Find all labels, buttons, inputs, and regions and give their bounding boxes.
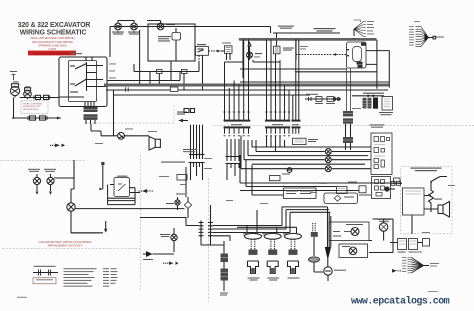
monitor aux box	[372, 177, 391, 199]
radio module box	[284, 188, 317, 199]
svg-text:WORK LIGHT AND: WORK LIGHT AND	[23, 102, 42, 105]
machine harness connector hatched	[363, 98, 372, 109]
wire diode row	[305, 98, 341, 100]
lamp L10	[44, 169, 56, 195]
wire down arrow	[104, 229, 107, 233]
starter arrow black	[146, 251, 153, 257]
small module box	[177, 175, 187, 181]
wiper relay box	[114, 177, 130, 196]
key switch right pins	[59, 66, 107, 98]
horn button dot	[384, 186, 389, 191]
svg-text:320 & 322 EXCAVATOR: 320 & 322 EXCAVATOR	[18, 22, 91, 29]
lamp L9	[28, 169, 41, 195]
relay K1	[196, 47, 209, 56]
breaker CB1	[274, 46, 281, 54]
console pins dark	[347, 43, 366, 68]
glow plug lamp	[171, 234, 177, 240]
epcatalogs watermark small	[428, 291, 438, 292]
arrow symbol small	[392, 269, 397, 273]
svg-text:WIRING SCHEMATIC: WIRING SCHEMATIC	[20, 30, 87, 37]
wire console loop outer	[201, 39, 347, 245]
right hand console label	[314, 28, 336, 32]
horn H1	[10, 84, 19, 98]
relay pair K3 K4	[398, 239, 407, 250]
wire bundle crossfeeds	[225, 60, 281, 62]
harness fan connector right	[416, 27, 429, 47]
fuse F2	[182, 70, 188, 74]
wire cab lamp	[101, 135, 149, 137]
console inner plug	[353, 47, 362, 62]
key switch contacts	[70, 62, 87, 92]
wire dashed boundary left cab region	[0, 105, 474, 302]
svg-text:(IF EQUIPPED): (IF EQUIPPED)	[23, 109, 39, 111]
diode row labels	[306, 94, 335, 104]
wire harness run y95	[113, 94, 310, 96]
machine harness plug dark	[373, 98, 378, 109]
wire fuel gauge bottom	[134, 61, 199, 90]
wire arrow terminator	[57, 117, 61, 120]
diode D1	[316, 97, 322, 102]
ground bowtie	[169, 262, 179, 265]
wire horn feed	[20, 97, 59, 99]
wire diamond row	[352, 95, 384, 97]
lamp console label	[161, 149, 197, 163]
wiper motor arrow	[142, 189, 147, 193]
pilot arrow component	[248, 43, 251, 61]
relay module box	[293, 138, 307, 144]
connector block below key switch (hatched)	[84, 107, 98, 120]
diode module	[423, 239, 430, 247]
lamp L1 rear work	[115, 23, 122, 30]
printed footnote	[17, 296, 27, 299]
module box small	[270, 176, 281, 181]
wire bundle lamp console	[191, 125, 203, 154]
svg-text:HORN CIRCUITS: HORN CIRCUITS	[23, 106, 41, 108]
svg-text:www.epcatalogs.com: www.epcatalogs.com	[351, 296, 450, 308]
fuse block label	[278, 26, 294, 29]
wire harness run y90	[106, 89, 388, 91]
connector C3 comb upper	[292, 39, 301, 121]
connector comb pair vertical A	[199, 221, 204, 239]
connector comb group1 lower	[226, 156, 241, 158]
lamp L7	[325, 157, 331, 163]
fuse F4	[287, 168, 292, 173]
flasher relay circle	[67, 203, 75, 211]
harness fan connector lower	[408, 258, 424, 273]
wire relay to diamond terminator	[209, 50, 218, 52]
lamp labels	[112, 24, 175, 35]
console fan connector	[354, 20, 367, 37]
connector C2 comb lower	[265, 126, 290, 135]
connector C2 comb upper	[265, 39, 290, 121]
connector C1 comb lower	[224, 126, 251, 135]
component label specks	[13, 21, 455, 252]
connector plug pair top	[184, 109, 189, 113]
connector chain bottom mid hatched	[221, 254, 229, 281]
to machine harness label	[363, 93, 384, 94]
alarm resistor zigzag	[429, 182, 434, 212]
ground arrow symbol	[55, 144, 65, 148]
svg-text:V-0271: V-0271	[48, 47, 57, 51]
wire bundle group1 lower	[227, 139, 239, 156]
svg-text:(PRINTED JUNE 2000): (PRINTED JUNE 2000)	[38, 43, 66, 47]
wire bus drop left	[91, 30, 140, 136]
connector plugs on lower wire	[30, 116, 36, 120]
lamp L3 boom work	[157, 23, 164, 30]
sensor box	[359, 186, 366, 193]
wire relay loops	[108, 185, 140, 205]
battery fork symbol	[10, 72, 17, 81]
wire lower accessory row	[12, 98, 61, 119]
svg-text:CAB AND BATTERY WIRING (IF EQU: CAB AND BATTERY WIRING (IF EQUIPPED)	[38, 240, 91, 244]
wire feed drop	[102, 162, 104, 189]
lamp L2 front work	[131, 23, 138, 30]
console connector box	[347, 42, 367, 68]
lamp L11 small	[175, 200, 180, 205]
cab battery wiring note (red)	[38, 240, 91, 247]
alarm switch	[431, 177, 447, 182]
connector comb lamp console lower	[189, 162, 205, 164]
work light label box (dashed)	[21, 101, 48, 114]
fuel gauge label	[158, 36, 171, 42]
connector plugs on horn wire	[36, 95, 41, 99]
wire relay drop	[198, 55, 200, 71]
legend note label	[34, 266, 56, 267]
bus junction block	[170, 87, 178, 91]
relay K2	[225, 46, 233, 54]
washer motor box	[339, 244, 368, 258]
solenoid SV1	[243, 233, 262, 281]
connector labels	[231, 124, 299, 125]
resistor module box	[337, 187, 348, 194]
wire dashed console feed	[336, 54, 347, 56]
connector comb pair vertical B	[208, 221, 213, 239]
main power bus (thick gray)	[104, 84, 389, 87]
wires from key switch bottom to harness connector	[85, 57, 94, 107]
wire lamp feed	[54, 160, 74, 178]
fuse F3	[327, 97, 334, 102]
wire lamp feed bus	[110, 21, 271, 58]
wire alarm connections	[412, 196, 438, 235]
legend text block B	[103, 268, 118, 286]
lamp L5	[247, 52, 253, 58]
wire lamp loop rows	[241, 147, 371, 169]
horn label	[434, 199, 442, 200]
connector C3 comb lower	[292, 126, 301, 133]
fuse F1	[157, 70, 163, 74]
key switch module box	[382, 97, 393, 111]
wire comb link	[186, 226, 290, 236]
wiper motor box	[329, 222, 369, 241]
lamp L4 cab	[118, 132, 125, 139]
wire flasher run	[75, 208, 184, 210]
monitor connections label	[370, 124, 385, 127]
fuel gauge region box	[148, 24, 195, 61]
funnel connector black	[325, 247, 331, 258]
fuel sender component	[172, 33, 181, 41]
wire top feed	[271, 27, 341, 47]
red banner bar	[28, 51, 76, 56]
lamp L8	[325, 166, 331, 172]
legend text block A	[64, 268, 97, 286]
relay K1 label	[197, 44, 206, 45]
horn H2	[24, 88, 32, 99]
svg-text:ARRANGEMENT SECTION A: ARRANGEMENT SECTION A	[48, 243, 83, 247]
level switch circle	[324, 267, 332, 275]
svg-text:320(L) (S/N 9KK03047 AND ABOVE: 320(L) (S/N 9KK03047 AND ABOVE)	[30, 36, 74, 40]
plug component right edge	[394, 178, 401, 183]
solenoid SV4 chain	[309, 223, 320, 272]
solenoid SV2	[263, 233, 282, 281]
connector stack below console hatched	[343, 111, 353, 124]
battery alarm plugs	[390, 182, 402, 184]
legend box	[33, 278, 56, 284]
legend connector symbols	[33, 272, 58, 274]
wire funnel drop	[328, 207, 331, 247]
monitor indicator squares	[374, 137, 390, 169]
wire harness run y80	[107, 72, 180, 81]
washer pump box	[324, 193, 358, 204]
solenoid SV3	[283, 233, 302, 279]
plug pair	[309, 97, 312, 101]
wire solenoid feed	[237, 210, 297, 234]
connector comb lamp console upper	[189, 154, 205, 156]
speaker SP1	[149, 137, 160, 150]
wire stack drop	[346, 124, 351, 137]
key switch box U1 outer	[59, 57, 107, 107]
diamond terminal pair	[368, 94, 376, 97]
monitor panel box	[371, 133, 392, 175]
fuse block panel box	[240, 39, 243, 78]
connector C1 comb upper	[223, 39, 250, 121]
wire comb to washer runs	[282, 207, 331, 233]
title text 320 & 322 EXCAVATOR WIRING SCHEMATIC	[18, 22, 91, 36]
pump wire loop	[369, 219, 393, 253]
battery alarm box	[403, 188, 425, 215]
fuel shutoff diamond	[184, 202, 191, 209]
battery alarm label	[411, 168, 442, 172]
subtitle serial number lines (red)	[30, 36, 74, 51]
travel alarm arrow	[178, 119, 183, 122]
svg-text:Download Schematic Here: Download Schematic Here	[34, 51, 70, 55]
wire loop verticals	[241, 136, 285, 169]
wire lower long runs	[240, 183, 390, 195]
console bus (thick gray)	[240, 38, 376, 41]
alarm horn speaker	[438, 202, 450, 218]
pump circle	[379, 223, 387, 231]
travel alarm label	[177, 112, 187, 115]
key switch box inner	[69, 61, 97, 102]
wire console loop right	[240, 40, 389, 89]
connector plug hatched lower	[343, 137, 353, 143]
lamp L6	[325, 149, 331, 155]
svg-text:322 (S/N 8XK01377 AND ABOVE): 322 (S/N 8XK01377 AND ABOVE)	[32, 40, 73, 44]
